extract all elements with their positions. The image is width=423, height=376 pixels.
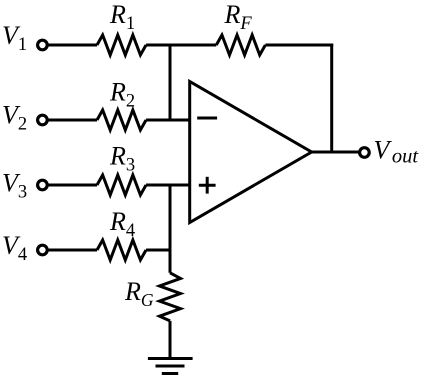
wire xyxy=(146,119,190,122)
resistor R1 xyxy=(97,35,146,55)
inverting input marker xyxy=(197,117,217,120)
non-inverting input marker xyxy=(199,177,216,194)
wire xyxy=(48,184,97,187)
wire xyxy=(169,321,172,359)
terminal Vout xyxy=(360,148,370,158)
resistor R2 xyxy=(97,110,146,130)
wire xyxy=(48,249,97,252)
wire xyxy=(146,249,170,252)
wire xyxy=(169,44,172,121)
resistor RF xyxy=(216,35,265,55)
wire xyxy=(330,44,333,153)
wire xyxy=(169,185,172,273)
terminal V3 xyxy=(38,180,48,190)
terminal V2 xyxy=(38,115,48,125)
terminal V1 xyxy=(38,40,48,50)
resistor R3 xyxy=(97,175,146,195)
resistor R4 xyxy=(97,240,146,260)
wire xyxy=(48,44,97,47)
wire xyxy=(48,119,97,122)
wire xyxy=(312,151,359,154)
wire xyxy=(265,44,333,47)
wire xyxy=(146,184,190,187)
ground xyxy=(148,359,193,374)
resistor RG xyxy=(160,273,181,321)
terminal V4 xyxy=(38,245,48,255)
op-amp U1 xyxy=(190,82,312,223)
wire xyxy=(146,44,216,47)
